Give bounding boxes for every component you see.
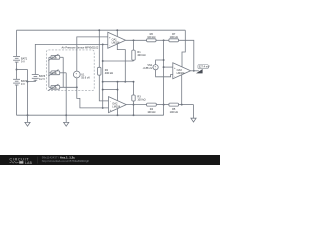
svg-text:100 kΩ: 100 kΩ: [170, 110, 178, 114]
svg-text:LM324: LM324: [112, 105, 120, 109]
battery BAT1: [13, 56, 20, 62]
footer bar: [0, 155, 220, 165]
wire rail right corner jog to OA3 V+: [182, 30, 185, 67]
wire R1 bottom row: [103, 60, 134, 62]
resistor R2 column from rail: [98, 30, 100, 67]
wire gain column branch to OA2 V+ pin: [103, 89, 118, 91]
svg-text:400 kΩ: 400 kΩ: [137, 53, 145, 57]
node output flag: [196, 69, 203, 73]
svg-text:LAB: LAB: [25, 161, 33, 165]
svg-text:-0.88 uV: -0.88 uV: [143, 66, 153, 70]
resistor R7: [169, 39, 179, 42]
wire left supply column: [16, 30, 18, 56]
wire VN1 bottom to OA3 - input: [156, 70, 173, 77]
op-amp OA3: [173, 63, 191, 79]
wire U1 bottom jog to OA2 - input: [77, 78, 109, 108]
wire R6-R7: [156, 39, 169, 41]
wire U1 top to OA1 + input: [77, 37, 108, 71]
wire midpoint branch: [17, 69, 28, 71]
svg-text:LM324: LM324: [177, 71, 185, 75]
wire R6R7 tap column: [163, 40, 165, 115]
wire between batteries: [16, 62, 18, 79]
svg-text:100 kΩ: 100 kΩ: [147, 35, 155, 39]
resistor R3: [132, 95, 135, 101]
wire OA2 output row: [126, 104, 146, 106]
resistor R1 column: [133, 40, 135, 50]
wire BAT2 down to bus: [16, 85, 18, 115]
resistor bridge RS1: [48, 54, 63, 60]
svg-text:100 kΩ: 100 kΩ: [170, 35, 178, 39]
pin OA2 V+: [117, 82, 119, 101]
wire OA1 output row: [126, 39, 147, 41]
source VN1: [153, 65, 158, 70]
wire bridge left column: [48, 57, 50, 87]
sensor box dashed: [46, 50, 94, 91]
wire bridge inner column 1: [62, 57, 64, 87]
node bridge column on bus: [65, 114, 67, 116]
svg-text:327.4 mV: 327.4 mV: [199, 65, 210, 69]
svg-text:9 V: 9 V: [21, 59, 25, 63]
wire ground tap column: [27, 70, 29, 123]
svg-text:-: -: [109, 44, 110, 48]
svg-text:http://circuitlab.com/c/5763a6: http://circuitlab.com/c/5763a699b0gf/: [42, 159, 89, 163]
wire bridge inner column 2 to ground: [65, 73, 67, 123]
svg-text:9 V: 9 V: [21, 82, 25, 86]
wire BAT3 to OA1 inverting input: [35, 44, 108, 74]
battery BAT3: [28, 80, 36, 81]
svg-text:400 kΩ: 400 kΩ: [105, 71, 113, 75]
svg-text:0.2 V: 0.2 V: [39, 77, 45, 81]
ground G3: [191, 118, 196, 122]
svg-text:-: -: [110, 100, 111, 104]
svg-text:LM324: LM324: [112, 40, 120, 44]
svg-text:-: -: [76, 74, 77, 78]
resistor bridge RS2: [48, 70, 66, 76]
pin OA2 V-: [117, 109, 119, 116]
source U1 bridge output: [73, 71, 80, 78]
node BAT3 return joins column: [27, 81, 29, 83]
svg-text:100 kΩ: 100 kΩ: [137, 97, 145, 101]
svg-text:100 kΩ: 100 kΩ: [147, 110, 155, 114]
footer separator: [37, 157, 39, 164]
ground G1: [25, 122, 30, 126]
wire tap to OA3 + input: [164, 66, 173, 68]
annotation box output voltage: [198, 65, 208, 69]
pin OA1 V+: [116, 30, 118, 36]
resistor R4: [147, 103, 157, 106]
pin OA1 V- jog down: [117, 44, 125, 82]
logo zigzag and LAB: [10, 161, 19, 163]
wire ground bus: [17, 114, 164, 116]
op-amp OA2: [109, 97, 127, 113]
ground G2: [64, 122, 69, 126]
node tap on bus: [27, 114, 29, 116]
pin OA3 V-: [181, 75, 183, 105]
wire VN1 top: [156, 60, 164, 65]
svg-text:55.6 uV: 55.6 uV: [81, 75, 90, 79]
op-amp OA1: [108, 32, 126, 48]
wire gain network column: [102, 44, 104, 108]
svg-text:Air Pressure Sensor MPXM2102: Air Pressure Sensor MPXM2102: [62, 45, 99, 49]
svg-text:-: -: [174, 74, 175, 78]
node U1 bottom tie: [76, 86, 78, 88]
wire mid feedback row: [103, 81, 134, 83]
wire top rail: [17, 29, 186, 31]
node supply midpoint: [16, 69, 18, 71]
battery BAT2: [13, 79, 20, 85]
node gain column tap: [102, 43, 104, 45]
resistor R6: [147, 39, 156, 42]
wire OA3 output: [191, 70, 199, 72]
resistor R5: [169, 103, 179, 106]
resistor bridge RS3: [48, 84, 77, 90]
wire R7 to feedback corner: [179, 40, 194, 71]
wire to ground G3: [193, 105, 195, 119]
